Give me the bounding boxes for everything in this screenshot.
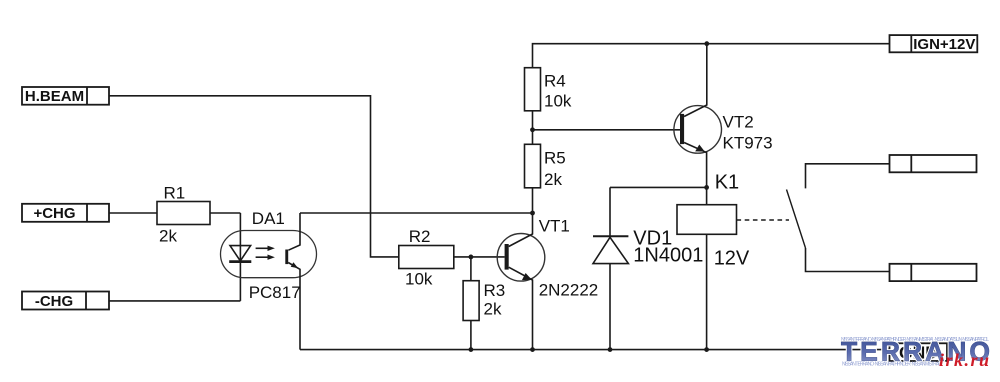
wire R1 to LED anode — [210, 212, 240, 214]
arrow emitter DA1 — [291, 262, 299, 268]
wire VD1 anode to ground — [609, 264, 611, 350]
svg-text:KT973: KT973 — [723, 134, 773, 153]
top +12V rail — [533, 44, 890, 68]
wire R3 to ground — [470, 321, 472, 350]
dashed linkage relay to contact — [737, 219, 790, 221]
node VT2 collector +12V junction — [704, 41, 709, 46]
wire VD1 cathode vertical — [609, 187, 611, 236]
connector box IGN+12V — [890, 35, 978, 52]
wire DA1 collector to VT1 collector node — [300, 212, 533, 214]
connector box upper right — [890, 155, 977, 172]
svg-text:R4: R4 — [544, 72, 566, 91]
svg-text:-CHG: -CHG — [35, 293, 73, 310]
svg-text:H.BEAM: H.BEAM — [25, 88, 84, 105]
svg-text:2N2222: 2N2222 — [539, 281, 599, 300]
svg-text:12V: 12V — [714, 248, 750, 270]
phototransistor emitter DA1 — [288, 263, 300, 350]
node DA1 collector / VT1 collector junction — [530, 211, 535, 216]
svg-text:VT1: VT1 — [539, 217, 570, 236]
watermark terrano club — [841, 337, 990, 371]
transistor VT2 base bar — [680, 114, 684, 144]
bottom ground wire — [300, 349, 890, 351]
svg-text:irk.ru: irk.ru — [939, 350, 989, 370]
transistor VT1 collector — [509, 188, 533, 247]
svg-text:DA1: DA1 — [252, 209, 285, 228]
svg-text:2k: 2k — [159, 227, 177, 246]
wire H.BEAM to R2 — [109, 96, 399, 257]
svg-text:2k: 2k — [544, 170, 562, 189]
svg-text:1N4001: 1N4001 — [633, 245, 703, 267]
diode VD1 triangle — [593, 237, 628, 263]
connector box lower right — [890, 264, 977, 281]
phototransistor bar DA1 — [285, 250, 288, 265]
resistor R1 — [157, 202, 210, 225]
node R4/R5/VT2 base junction — [530, 127, 535, 132]
wire -CHG to LED cathode — [109, 300, 240, 302]
relay K1 coil box — [677, 205, 737, 235]
phototransistor collector DA1 — [288, 213, 300, 250]
resistor R5 — [525, 144, 541, 188]
node R3 ground junction — [469, 347, 474, 352]
diode VD1 cathode bar — [593, 235, 628, 237]
node R2/R3/base junction — [469, 255, 474, 260]
wire R4 to R5 — [532, 111, 534, 145]
optocoupler DA1 body — [221, 231, 317, 278]
LED D inside DA1 — [230, 246, 251, 261]
light arrow 2 — [256, 255, 275, 260]
light arrow 1 — [256, 246, 275, 251]
transistor VT1 circle — [497, 233, 545, 281]
wire junction to R3 — [470, 257, 472, 281]
wire lower contact — [806, 248, 890, 272]
node VD1 ground junction — [608, 347, 613, 352]
transistor VT2 circle — [674, 106, 722, 154]
wire relay to ground — [706, 234, 708, 349]
transistor VT1 base bar — [505, 244, 509, 270]
svg-text:10k: 10k — [544, 92, 572, 111]
svg-text:IGN+12V: IGN+12V — [913, 36, 975, 53]
wire VT2 base — [533, 129, 681, 131]
transistor VT2 emitter — [684, 143, 707, 205]
transistor VT2 collector — [684, 44, 707, 117]
arrow emitter VT2 — [695, 145, 705, 152]
connector box GND — [890, 343, 948, 361]
connector box +CHG — [22, 204, 109, 222]
svg-text:NISSAN TERRANO · NISSAN PATHFI: NISSAN TERRANO · NISSAN PATHFINDER · NIS… — [842, 361, 941, 367]
resistor R4 — [525, 68, 541, 111]
connector box H.BEAM — [22, 87, 109, 105]
switch blade K1 contact — [787, 190, 806, 249]
svg-text:PC817: PC817 — [249, 283, 301, 302]
arrow emitter VT1 — [522, 273, 532, 280]
svg-text:R3: R3 — [484, 281, 506, 300]
LED cathode bar — [229, 260, 251, 263]
node VT1 emitter ground junction — [530, 347, 535, 352]
node relay ground junction — [704, 347, 709, 352]
svg-text:R1: R1 — [164, 184, 186, 203]
svg-text:R5: R5 — [544, 149, 566, 168]
wire LED vertical — [239, 213, 241, 301]
wire VD1 top — [610, 186, 707, 188]
wire +CHG to R1 — [109, 212, 157, 214]
svg-text:R2: R2 — [409, 227, 431, 246]
connector box -CHG — [22, 292, 109, 310]
svg-text:2k: 2k — [484, 300, 502, 319]
wire upper contact — [806, 164, 890, 189]
wire R2 to VT1 base — [454, 256, 505, 258]
resistor R2 — [399, 246, 454, 269]
svg-text:+CHG: +CHG — [33, 205, 75, 222]
svg-text:10k: 10k — [405, 270, 433, 289]
resistor R3 — [463, 281, 479, 321]
node VD1/relay junction — [704, 185, 709, 190]
svg-text:K1: K1 — [715, 172, 739, 194]
transistor VT1 emitter — [509, 267, 533, 349]
svg-text:VT2: VT2 — [723, 113, 754, 132]
